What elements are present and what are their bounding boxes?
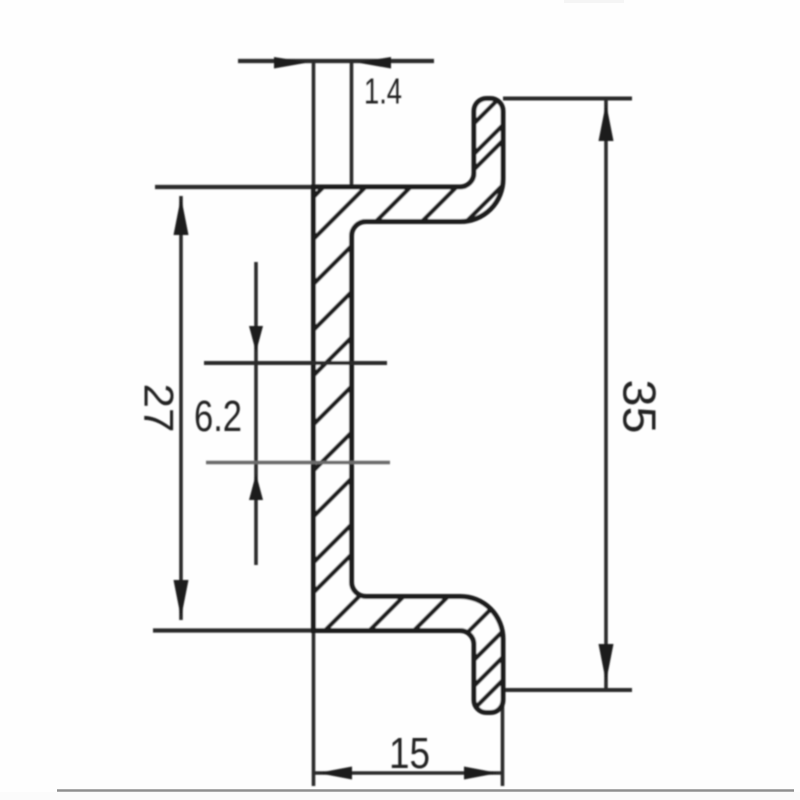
svg-text:1.4: 1.4: [364, 71, 402, 112]
svg-text:27: 27: [136, 384, 183, 433]
svg-text:6.2: 6.2: [194, 392, 242, 441]
svg-text:15: 15: [389, 729, 430, 778]
svg-text:35: 35: [614, 380, 666, 434]
